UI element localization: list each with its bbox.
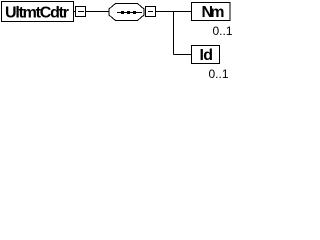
svg-text:Id: Id	[200, 47, 214, 64]
svg-text:UltmtCdtr: UltmtCdtr	[5, 4, 69, 21]
svg-text:0..1: 0..1	[213, 24, 233, 38]
svg-text:0..1: 0..1	[209, 67, 229, 81]
svg-text:Nm: Nm	[202, 4, 225, 21]
